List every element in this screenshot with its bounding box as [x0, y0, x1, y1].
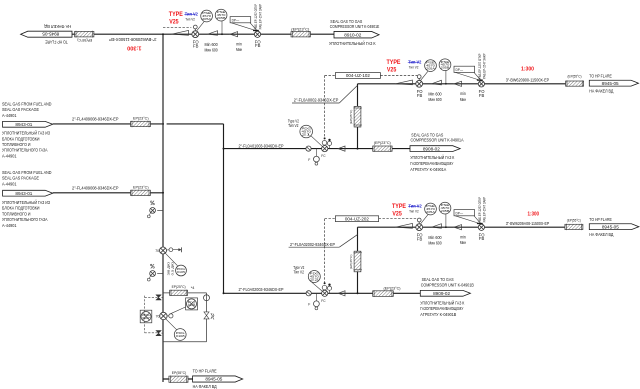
svg-text:2"-FL0A01003-9346DX-EP: 2"-FL0A01003-9346DX-EP — [239, 143, 284, 148]
svg-text:205B: 205B — [441, 65, 450, 69]
svg-text:2"-FL0A02002-9346DX-EP: 2"-FL0A02002-9346DX-EP — [290, 242, 335, 247]
svg-text:Тип V2: Тип V2 — [409, 209, 419, 213]
svg-text:min: min — [236, 41, 242, 46]
svg-text:min: min — [460, 234, 466, 239]
svg-text:205A: 205A — [426, 66, 435, 70]
svg-text:FB: FB — [255, 43, 261, 48]
svg-text:Тип V2: Тип V2 — [409, 65, 419, 69]
svg-text:2"-FL4409008-9346DX-EP: 2"-FL4409008-9346DX-EP — [72, 117, 119, 122]
svg-text:Мин: Мин — [460, 97, 467, 102]
svg-text:Мин: Мин — [236, 47, 243, 52]
svg-text:УПЛОТНИТЕЛЬНОГО ГАЗА: УПЛОТНИТЕЛЬНОГО ГАЗА — [2, 148, 48, 154]
svg-text:Мин: Мин — [460, 240, 467, 245]
svg-text:(EP(55°C): (EP(55°C) — [568, 74, 583, 79]
svg-text:FB: FB — [193, 43, 199, 48]
svg-text:РАБ.EP-1547 ЗАКР: РАБ.EP-1547 ЗАКР — [258, 4, 262, 30]
svg-text:FB: FB — [417, 93, 423, 98]
svg-text:2"-FL4409008-9346DX-EP: 2"-FL4409008-9346DX-EP — [72, 185, 119, 190]
svg-text:Min 600: Min 600 — [428, 91, 442, 96]
svg-text:БЛОКА ПОДГОТОВКИ: БЛОКА ПОДГОТОВКИ — [2, 136, 40, 142]
svg-text:EP(55°C): EP(55°C) — [77, 38, 93, 43]
svg-text:SEAL GAS PACKAGE: SEAL GAS PACKAGE — [2, 107, 40, 113]
svg-text:TYPE: TYPE — [169, 11, 183, 18]
svg-text:(EP(25°C): (EP(25°C) — [349, 110, 353, 125]
svg-text:A-44901: A-44901 — [2, 153, 17, 159]
svg-text:Тип V2: Тип V2 — [288, 123, 299, 129]
svg-text:SEAL GAS FROM FUEL AND: SEAL GAS FROM FUEL AND — [2, 101, 52, 107]
svg-text:3"-BW620508-11500X-EP: 3"-BW620508-11500X-EP — [109, 37, 157, 42]
svg-text:COMPRESSOR UNIT K-04901B: COMPRESSOR UNIT K-04901B — [421, 282, 474, 288]
svg-text:(EP(23°C): (EP(23°C) — [374, 140, 392, 145]
svg-text:FC: FC — [321, 154, 326, 158]
svg-text:Min 600: Min 600 — [428, 235, 442, 240]
svg-text:НА ФАКЕЛ ВД: НА ФАКЕЛ ВД — [193, 384, 218, 389]
svg-text:АГРЕГАТУ K-04901B: АГРЕГАТУ K-04901B — [420, 312, 456, 318]
svg-text:1:300: 1:300 — [127, 44, 142, 50]
svg-text:Мин 600: Мин 600 — [428, 97, 442, 102]
svg-text:Тип V2: Тип V2 — [185, 12, 199, 17]
svg-text:Тип V2: Тип V2 — [409, 204, 423, 209]
svg-text:0105: 0105 — [177, 270, 186, 274]
svg-text:НА ФАКЕЛ ВД: НА ФАКЕЛ ВД — [589, 88, 614, 94]
svg-text:(EP(23°C): (EP(23°C) — [384, 285, 402, 290]
svg-text:*4: *4 — [191, 286, 195, 290]
svg-text:Мин 600: Мин 600 — [205, 47, 219, 52]
svg-text:НА ФАКЕЛ ВД: НА ФАКЕЛ ВД — [589, 232, 614, 238]
svg-text:004-UZ-102: 004-UZ-102 — [346, 73, 371, 78]
svg-text:TYPE: TYPE — [387, 59, 401, 66]
svg-text:НА ФАКЕЛ ВД: НА ФАКЕЛ ВД — [44, 24, 72, 29]
svg-text:Тип V2: Тип V2 — [185, 17, 195, 21]
svg-text:COMPRESSOR UNIT K-04901A: COMPRESSOR UNIT K-04901A — [411, 138, 465, 144]
svg-text:Тип V2: Тип V2 — [408, 60, 422, 65]
svg-text:FB: FB — [417, 236, 423, 241]
svg-text:3"-BW620900-11500X-EP: 3"-BW620900-11500X-EP — [506, 77, 550, 82]
svg-text:A-44901: A-44901 — [2, 113, 17, 119]
svg-text:0108: 0108 — [176, 334, 186, 338]
svg-text:(EP(55°C): (EP(55°C) — [567, 217, 582, 222]
svg-text:V25: V25 — [387, 66, 397, 73]
svg-text:8945-05: 8945-05 — [42, 32, 60, 37]
svg-text:V25: V25 — [392, 210, 402, 217]
svg-text:SEAL GAS FROM FUEL AND: SEAL GAS FROM FUEL AND — [2, 170, 52, 176]
svg-text:004-UZ-202: 004-UZ-202 — [345, 216, 370, 221]
svg-text:Min 600: Min 600 — [205, 42, 219, 47]
svg-text:(EP(23°C): (EP(23°C) — [291, 27, 310, 32]
svg-text:TYPE: TYPE — [392, 203, 406, 210]
svg-text:РАБ.EP-1547 ЗАКР: РАБ.EP-1547 ЗАКР — [482, 197, 486, 223]
svg-text:TO HP FLARE: TO HP FLARE — [45, 40, 68, 45]
svg-text:2"-FL0A0002-9346DX-EP: 2"-FL0A0002-9346DX-EP — [294, 97, 339, 102]
svg-text:EP(55°C): EP(55°C) — [172, 370, 187, 375]
svg-text:EP(25°C): EP(25°C) — [172, 285, 187, 289]
svg-text:ГАЗОПЕРЕКАЧИВАЮЩЕМУ: ГАЗОПЕРЕКАЧИВАЮЩЕМУ — [420, 306, 464, 312]
svg-text:TO HP FLARE: TO HP FLARE — [589, 217, 612, 223]
svg-text:A-44901: A-44901 — [2, 181, 17, 187]
svg-text:8908-02: 8908-02 — [423, 146, 441, 151]
svg-text:1:300: 1:300 — [528, 212, 540, 218]
svg-text:FB: FB — [479, 236, 485, 241]
svg-text:8910-02: 8910-02 — [344, 32, 362, 37]
svg-text:DP—: DP— — [456, 211, 464, 215]
svg-text:(EP(25°C): (EP(25°C) — [349, 255, 353, 270]
svg-text:TO HP FLARE: TO HP FLARE — [193, 368, 218, 374]
svg-text:8945-05: 8945-05 — [205, 377, 223, 382]
svg-text:F: F — [308, 303, 310, 307]
svg-text:УПЛОТНИТЕЛЬНОГО ГАЗА: УПЛОТНИТЕЛЬНОГО ГАЗА — [2, 217, 48, 223]
svg-text:ТОПЛИВНОГО И: ТОПЛИВНОГО И — [2, 142, 31, 148]
svg-text:205B: 205B — [217, 16, 226, 20]
svg-text:FC: FC — [321, 299, 326, 303]
svg-text:SEAL GAS TO GAS: SEAL GAS TO GAS — [422, 277, 455, 283]
svg-text:SEAL GAS TO GAS: SEAL GAS TO GAS — [411, 132, 444, 138]
svg-text:EP(23°C): EP(23°C) — [133, 185, 149, 190]
svg-text:min: min — [460, 91, 466, 96]
svg-text:1:300: 1:300 — [521, 66, 534, 72]
svg-text:DP—: DP— — [232, 18, 240, 22]
svg-text:2"-FL0A02003-9346DX-EP: 2"-FL0A02003-9346DX-EP — [239, 287, 284, 292]
svg-text:F: F — [308, 158, 310, 162]
svg-text:205A: 205A — [426, 210, 435, 214]
svg-text:205B: 205B — [441, 209, 450, 213]
svg-text:8945-05: 8945-05 — [602, 224, 620, 229]
svg-text:COMPRESSOR UNIT K-04901E: COMPRESSOR UNIT K-04901E — [330, 24, 380, 30]
svg-text:70: 70 — [155, 249, 159, 253]
svg-text:3"-BW6209A08-11500X-EP: 3"-BW6209A08-11500X-EP — [506, 221, 550, 226]
svg-text:ГАЗОПЕРЕКАЧИВАЮЩЕМУ: ГАЗОПЕРЕКАЧИВАЮЩЕМУ — [410, 161, 454, 167]
svg-text:8943-01: 8943-01 — [15, 191, 33, 196]
svg-text:8945-05: 8945-05 — [602, 81, 620, 86]
svg-text:ТОПЛИВНОГО И: ТОПЛИВНОГО И — [2, 211, 31, 217]
svg-text:TO HP FLARE: TO HP FLARE — [589, 74, 612, 80]
svg-text:SEAL GAS TO GAS: SEAL GAS TO GAS — [330, 19, 363, 25]
svg-text:A-44901: A-44901 — [2, 223, 17, 229]
svg-text:205A: 205A — [202, 17, 211, 21]
svg-text:Тип V2: Тип V2 — [294, 270, 305, 276]
svg-text:V25: V25 — [169, 18, 179, 25]
svg-text:АГРЕГАТУ K-04901A: АГРЕГАТУ K-04901A — [410, 167, 447, 173]
svg-text:8909-02: 8909-02 — [433, 291, 451, 296]
svg-text:8943-01: 8943-01 — [15, 122, 33, 127]
svg-text:0.5 ДЮ: 0.5 ДЮ — [170, 262, 174, 276]
svg-text:70: 70 — [156, 315, 160, 319]
svg-text:FB: FB — [479, 93, 485, 98]
svg-text:SEAL GAS PACKAGE: SEAL GAS PACKAGE — [2, 176, 40, 182]
svg-text:EP(23°C): EP(23°C) — [133, 115, 149, 120]
svg-text:БЛОКА ПОДГОТОВКИ: БЛОКА ПОДГОТОВКИ — [2, 206, 40, 212]
svg-text:Мин 600: Мин 600 — [428, 240, 442, 245]
svg-text:DP—: DP— — [456, 68, 464, 72]
svg-text:РАБ.EP-1547 ЗАКР: РАБ.EP-1547 ЗАКР — [482, 54, 486, 79]
